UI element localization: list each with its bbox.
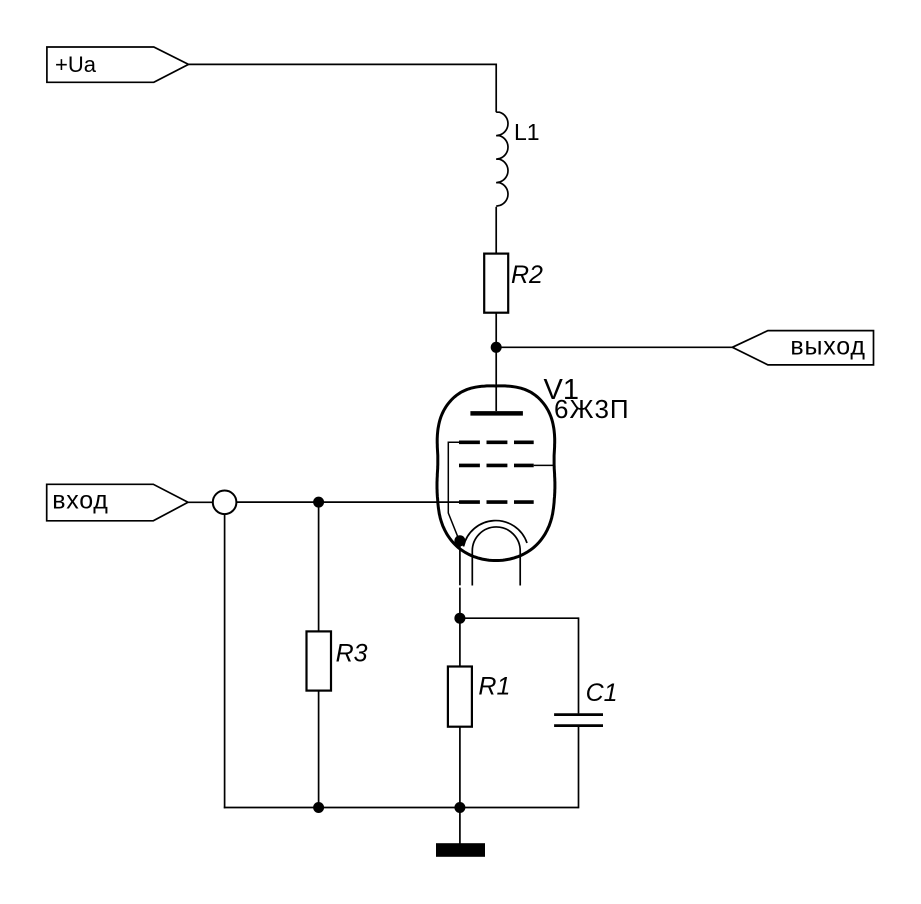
wire C1 top lead — [578, 617, 580, 713]
node R3 rail junction — [313, 802, 324, 813]
wire cathode lead — [459, 541, 461, 586]
svg-text:+Ua: +Ua — [55, 52, 97, 77]
wire R1 to rail — [459, 727, 461, 808]
resistor R3 — [307, 631, 368, 690]
grid g3 (dashed row 1) — [459, 440, 534, 444]
inductor L1 — [496, 112, 539, 206]
anode plate — [470, 411, 523, 416]
wire connector to grid g1 — [236, 501, 459, 503]
wire anode node to output flag — [496, 346, 732, 348]
grid g2 (dashed row 2) — [459, 464, 534, 468]
wire input node down to R3 — [318, 502, 320, 631]
svg-text:R2: R2 — [511, 261, 543, 289]
connector circle — [213, 491, 237, 515]
wire top horizontal from +Ua to L1 — [189, 63, 497, 65]
svg-text:6Ж3П: 6Ж3П — [554, 394, 630, 424]
heater — [472, 527, 520, 586]
tube V1 envelope — [437, 386, 555, 561]
wire top vertical down to L1 — [495, 64, 497, 113]
output flag выход — [732, 331, 873, 365]
cathode arc — [464, 521, 528, 547]
svg-text:R3: R3 — [336, 639, 368, 667]
wire cathode to node — [459, 588, 461, 619]
node cathode-R1-C1 junction — [454, 613, 465, 624]
svg-text:R1: R1 — [478, 673, 510, 701]
wire node to C1 branch — [460, 617, 579, 619]
wire g3 to cathode — [448, 442, 459, 540]
svg-text:вход: вход — [52, 486, 108, 514]
node anode junction — [491, 342, 502, 353]
svg-text:L1: L1 — [514, 119, 540, 145]
wire node to R1 — [459, 618, 461, 666]
wire C1 bottom lead — [578, 727, 580, 808]
wire connector down to rail — [224, 514, 226, 808]
wire R3 to rail — [318, 691, 320, 808]
wire ground lead — [459, 808, 461, 844]
resistor R1 — [448, 667, 510, 727]
ground — [436, 843, 485, 857]
resistor R2 — [484, 254, 543, 313]
node cathode junction — [454, 535, 465, 546]
node input junction — [313, 497, 324, 508]
wire input flag to connector — [188, 501, 213, 503]
wire R2 to anode node — [495, 313, 497, 348]
node R1 rail ground junction — [454, 802, 465, 813]
wire anode lead — [495, 347, 497, 411]
wire g2 to envelope — [534, 464, 555, 466]
svg-text:выход: выход — [790, 333, 865, 361]
wire bottom rail — [224, 807, 579, 809]
input flag вход — [47, 484, 188, 521]
svg-text:C1: C1 — [586, 679, 618, 707]
wire L1 to R2 — [495, 207, 497, 254]
capacitor C1 — [554, 679, 617, 725]
power flag +Ua — [47, 47, 189, 82]
grid g1 (dashed row 3) — [459, 500, 534, 504]
